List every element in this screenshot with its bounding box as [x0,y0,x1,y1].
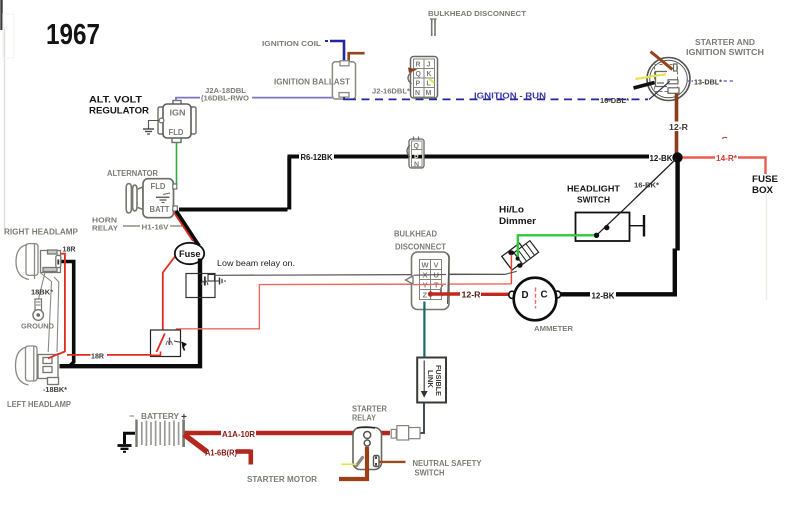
svg-text:12-BK: 12-BK [650,154,673,163]
svg-text:16-DBL*: 16-DBL* [600,96,629,105]
svg-text:-18BK*: -18BK* [43,387,67,394]
svg-text:IGNITION COIL: IGNITION COIL [262,39,321,48]
alternator body [143,179,177,218]
svg-text:18R: 18R [63,247,76,254]
wire 18BK* to ground [39,273,46,300]
svg-text:STARTER AND: STARTER AND [695,38,755,47]
left headlamp LP2 [16,346,59,385]
svg-text:A1-6B(R): A1-6B(R) [205,448,237,458]
svg-text:FUSE: FUSE [752,174,778,184]
label STARTER RELAY [352,405,387,423]
ground at battery [118,433,136,452]
svg-text:BULKHEAD: BULKHEAD [394,230,437,239]
wire dark: fusible link to starter relay connector [420,403,425,434]
svg-text:18BK*: 18BK* [31,290,53,297]
svg-text:REGULATOR: REGULATOR [89,106,150,116]
pin mark yellow at L [429,79,434,83]
red speck artifact [722,137,727,138]
relay right pin [374,456,380,467]
label HEADLIGHT SWITCH [567,184,621,205]
dimmer switch S2 [502,241,539,270]
svg-text:1967: 1967 [46,19,100,51]
label 12-R [668,122,689,133]
wire light red through connector Y T [413,283,446,286]
svg-text:12-R: 12-R [669,123,688,132]
svg-text:FLD: FLD [151,182,166,191]
page edge artifact top-left [2,0,15,230]
ignition ballast body [332,61,355,99]
wire gray through connector X U [414,273,446,276]
svg-text:W: W [422,261,430,270]
wire black thick from right headlamp [60,262,74,367]
low beam relay K1 [186,274,226,298]
svg-text:V: V [434,261,439,270]
svg-text:Fuse: Fuse [179,249,201,260]
svg-text:12-BK: 12-BK [592,292,615,301]
wire J2-16DBL navy dashed: ballast to ignition switch [344,97,648,99]
svg-text:(16DBL-RWO: (16DBL-RWO [201,94,249,103]
wire R6-12BK thick black: alternator BATT to junction [179,157,677,210]
svg-text:D: D [522,290,529,301]
ammeter M1 [509,278,561,321]
voltage regulator body [158,101,196,143]
svg-text:RIGHT HEADLAMP: RIGHT HEADLAMP [4,228,79,237]
svg-text:FLD: FLD [169,128,184,137]
label - BATTERY + [129,411,187,423]
label 13-DBL* with dashed leaders [687,78,735,87]
wire brown: relay to starter motor [339,447,367,479]
wire black stub into switch left [634,83,655,89]
svg-text:SWITCH: SWITCH [415,469,445,478]
wire green: headlight switch to dimmer [518,235,594,257]
svg-text:DISCONNECT: DISCONNECT [395,243,446,252]
svg-text:AMMETER: AMMETER [534,324,574,333]
svg-text:RELAY: RELAY [352,414,377,423]
wire yellow into switch left [636,74,667,79]
wire green: regulator FLD to alternator FLD [176,143,177,185]
svg-text:R6-12BK: R6-12BK [301,153,333,162]
label H1-16V with dashes [123,223,184,232]
wire yellow into relay [341,463,356,465]
svg-text:IGNITION BALLAST: IGNITION BALLAST [274,78,350,87]
wire 12-BK thick black: junction down and to ammeter [559,158,678,295]
page edge artifact right [766,174,768,300]
svg-text:LEFT HEADLAMP: LEFT HEADLAMP [7,400,72,409]
junction node [672,152,682,162]
svg-text:ALTERNATOR: ALTERNATOR [107,169,158,178]
svg-text:HEADLIGHT: HEADLIGHT [567,184,621,194]
alternator pulley [126,184,143,214]
wire 18R red: relay to headlamps [49,254,152,359]
wire A1A-10R dark red: battery to starter relay [185,431,391,436]
wire red through relay (already drawn) terminal circles [364,432,371,447]
battery BAT1 plates [137,420,184,448]
bulkhead pin symbol [430,19,437,36]
dimmer contact dots [508,250,522,267]
fuse F1 [175,243,204,264]
svg-text:ALT. VOLT: ALT. VOLT [89,95,143,105]
label BULKHEAD DISCONNECT (middle) [394,230,446,252]
svg-text:L: L [427,81,432,88]
headlight switch S1 [576,212,645,242]
wire 12-R brown: switch to junction [675,94,679,157]
svg-text:H1-16V: H1-16V [142,223,169,232]
svg-text:N: N [414,161,419,168]
svg-text:16-BK*: 16-BK* [634,181,659,190]
svg-text:Low beam relay on.: Low beam relay on. [217,258,295,268]
svg-text:NEUTRAL SAFETY: NEUTRAL SAFETY [413,459,483,468]
svg-text:Q: Q [414,143,420,150]
bulkhead disconnect connector (middle) [406,252,450,310]
svg-text:LINK: LINK [426,370,433,388]
svg-text:J: J [427,62,431,69]
wire black thick: alternator BATT diagonal down [176,211,199,246]
svg-text:13-DBL*: 13-DBL* [694,78,722,87]
wire navy: ignition coil to ballast top [325,41,344,62]
svg-text:FUSIBLE: FUSIBLE [434,365,441,396]
wire 12-R red: connector Z to ammeter [428,291,513,296]
wire brown into switch top [651,52,673,70]
label Hi/Lo Dimmer [499,205,537,227]
svg-text:STARTER MOTOR: STARTER MOTOR [247,475,317,484]
wire red tip into left headlamp [48,354,59,359]
wire light red: dimmer circuit return [177,284,512,332]
wire red thin: dimmer down [510,255,512,284]
harness lines to left headlamp [40,273,59,353]
wire thin black: dimmer to bulkhead U [446,271,517,274]
ground at regulator [143,121,159,135]
wire teal: connector to fusible link [423,302,425,358]
wire J2A-18DBL purple: regulator IGN to ignition ballast [176,98,333,101]
starter relay K3 body [353,428,382,470]
svg-text:P: P [414,154,419,161]
svg-text:BULKHEAD DISCONNECT: BULKHEAD DISCONNECT [428,9,526,18]
label FUSE BOX [752,174,778,195]
svg-text:A1A-10R: A1A-10R [222,429,255,439]
label HORN RELAY [92,216,118,233]
wire brown at ballast top [349,53,365,62]
ground post [33,299,44,320]
label NEUTRAL SAFETY SWITCH [413,459,483,478]
svg-text:14-R*: 14-R* [716,154,738,163]
wire red: fuse to low-beam relay to headlamp relay [163,246,183,333]
wire brown to neutral safety switch [379,461,406,463]
label J2A-18DBL (16DBL-RWO) [201,86,249,103]
right headlamp LP1 [16,244,61,280]
pin arrow brown into Q [408,68,418,73]
svg-text:STARTER: STARTER [352,405,387,414]
svg-text:Q: Q [416,71,422,78]
svg-text:M: M [426,90,432,97]
wire 14-R* red: junction to fuse box [683,158,766,175]
starter relay connector [391,426,420,440]
svg-text:IGNITION SWITCH: IGNITION SWITCH [686,48,764,57]
wire A1-6B(R) dark red [184,435,251,465]
svg-text:GROUND: GROUND [21,322,55,331]
svg-text:12-R: 12-R [462,291,481,300]
starter and ignition switch body [647,58,690,101]
svg-text:BATTERY: BATTERY [141,412,180,421]
svg-text:P: P [416,81,421,88]
svg-text:K: K [427,71,432,78]
svg-text:C: C [541,290,548,301]
svg-text:Z: Z [423,291,428,300]
svg-text:IGNITION - RUN: IGNITION - RUN [474,91,546,101]
fusible link FL1 [417,358,446,403]
bulkhead disconnect connector (top) [408,57,438,99]
svg-text:RELAY: RELAY [92,224,118,233]
svg-text:Dimmer: Dimmer [499,216,537,226]
wire navy thin from dashed line into switch [649,81,670,99]
svg-text:18R: 18R [91,354,104,361]
label ALT. VOLT REGULATOR [89,95,150,116]
svg-text:−: − [129,411,134,421]
svg-text:BOX: BOX [752,185,773,195]
svg-text:J2-16DBL*: J2-16DBL* [372,87,410,96]
svg-text:R: R [416,62,421,69]
wire gray: relay to bulkhead X and dimmer [215,274,506,275]
relay lever [357,458,363,466]
svg-text:BATT: BATT [150,205,170,214]
label STARTER AND IGNITION SWITCH [686,38,764,57]
svg-text:IGN: IGN [170,109,186,118]
wire 16-BK thin: junction to headlight switch [597,159,677,236]
svg-text:N: N [415,90,420,97]
headlamp relay K2 [151,330,188,357]
wire black thick vertical through low beam relay [60,259,201,367]
svg-text:Hi/Lo: Hi/Lo [499,205,525,215]
wire red: BATT to fuse [174,213,193,242]
svg-text:SWITCH: SWITCH [577,195,610,205]
connector Q P N on wire [407,137,424,169]
